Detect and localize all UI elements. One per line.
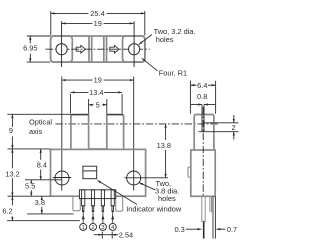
svg-text:Optical: Optical <box>29 118 52 127</box>
svg-text:holes: holes <box>156 35 174 44</box>
svg-text:6.95: 6.95 <box>23 43 37 52</box>
svg-text:8.4: 8.4 <box>37 160 47 169</box>
svg-text:5.5: 5.5 <box>25 181 35 190</box>
front view: terminal block <box>79 190 115 199</box>
dimension 13.2 <box>11 149 13 196</box>
side view: upper body <box>194 115 214 151</box>
label: Two, 3.8 dia. holes <box>139 183 155 190</box>
label: Two, 3.2 dia. holes <box>139 35 152 45</box>
front view: left mounting hole <box>53 171 71 185</box>
dimension 2.54 (pin pitch) <box>94 232 119 239</box>
svg-text:13.4: 13.4 <box>89 88 103 97</box>
svg-text:9: 9 <box>9 126 13 135</box>
dimension 3.8 <box>41 196 43 214</box>
svg-text:holes: holes <box>158 194 176 203</box>
left dimension chain ticks <box>7 114 80 220</box>
front view: indicator window <box>83 166 97 179</box>
svg-text:5: 5 <box>96 100 100 109</box>
svg-text:2.54: 2.54 <box>119 230 133 239</box>
top view: right optical axis arrow symbol <box>110 45 119 53</box>
dimension 0.7 (pin thickness) <box>216 228 225 230</box>
svg-text:1: 1 <box>82 225 85 231</box>
top view: horizontal center line <box>46 48 150 50</box>
svg-text:3: 3 <box>101 225 104 231</box>
tick at pin shoulder level <box>27 213 74 215</box>
dimension 19 (top view) <box>62 22 134 24</box>
svg-text:19: 19 <box>94 19 102 28</box>
front view: right bottom tab <box>116 196 123 211</box>
svg-text:2: 2 <box>91 225 94 231</box>
top view: sensor bar outline <box>51 36 145 62</box>
dimension 5.5 <box>30 180 32 196</box>
side view: indicator bump <box>188 167 191 177</box>
top view: left mounting hole <box>56 21 67 67</box>
front view: lower flange <box>51 149 146 196</box>
side view: lower body <box>191 150 215 196</box>
svg-text:19: 19 <box>94 76 102 85</box>
side view: vertical center line <box>202 107 204 196</box>
front view: right mounting hole <box>125 171 169 185</box>
side view: rear pin root <box>210 196 212 212</box>
svg-text:25.4: 25.4 <box>90 9 104 18</box>
dimension 13.4 (front view upper body width) <box>71 92 123 113</box>
svg-text:13.8: 13.8 <box>157 141 171 150</box>
svg-text:3.8: 3.8 <box>35 198 45 207</box>
front view: upper body with slot <box>71 115 124 150</box>
dimension 2 (window height) <box>199 115 239 140</box>
top view: left optical axis arrow symbol <box>76 45 85 53</box>
front view: pins 1-4 <box>82 190 115 212</box>
front view: hole center extension lines <box>62 77 134 191</box>
svg-text:Indicator window: Indicator window <box>126 204 182 213</box>
front view: pin number leaders and circled numbers <box>83 211 113 224</box>
svg-text:axis: axis <box>29 127 42 136</box>
dimension 13.8 (right side of front view) <box>165 124 167 178</box>
label: Four, R1 <box>142 58 158 71</box>
svg-text:6.2: 6.2 <box>2 206 12 215</box>
side view: rear pin (0.7) <box>213 196 215 238</box>
svg-text:0.8: 0.8 <box>197 92 207 101</box>
dimension 6.4 (side view width) <box>190 81 215 114</box>
svg-text:0.7: 0.7 <box>227 225 237 234</box>
dimension 8.4 <box>40 149 42 180</box>
label: Indicator window <box>98 180 138 204</box>
top view: right mounting hole <box>129 21 140 67</box>
dimension 5 (slot width) <box>89 99 107 114</box>
svg-text:Four, R1: Four, R1 <box>159 69 187 78</box>
front view: left bottom tab <box>73 196 80 211</box>
svg-text:13.2: 13.2 <box>5 169 19 178</box>
side view: slot wall lines (0.8) <box>202 105 204 132</box>
svg-text:0.3: 0.3 <box>175 225 185 234</box>
dimension 6.95 (left of top view) <box>27 36 51 62</box>
dimension 19 (front view, hole pitch) <box>62 79 134 81</box>
front view: tower top edges <box>71 114 123 116</box>
front view: optical axis line <box>56 123 220 125</box>
dimension 9 <box>11 114 13 149</box>
front view: hole level extension line (left) <box>25 179 62 181</box>
svg-text:2: 2 <box>232 123 236 132</box>
side view: left pin lower part (0.3) <box>203 221 205 238</box>
side view: left pin root <box>202 196 205 221</box>
svg-text:6.4: 6.4 <box>197 81 207 90</box>
dimension 25.4 (top) <box>51 11 145 36</box>
dimension 6.2 <box>11 196 13 221</box>
